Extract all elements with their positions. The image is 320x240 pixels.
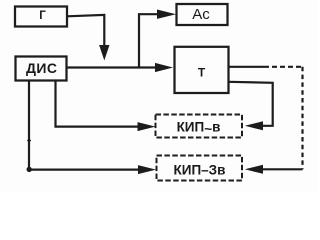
wire T right (to outer) solid part — [229, 66, 265, 68]
wire T right (to outer) dashed part — [264, 66, 303, 68]
wire outer vertical dashed — [301, 67, 303, 170]
svg-text:Т: Т — [198, 65, 206, 79]
wire DIS down-left to KIP-ZV — [29, 81, 140, 170]
wire DIS down-mid to KIP-V — [56, 81, 141, 127]
block KIP-ZV — [157, 156, 243, 181]
wire G right then down toward DIS-T line — [67, 15, 104, 46]
arrowhead right into KIP-V left — [138, 122, 156, 131]
wire outer bottom into KIP-ZV — [261, 168, 303, 170]
block Ac — [177, 4, 228, 25]
svg-text:Ас: Ас — [192, 6, 210, 23]
svg-text:КИП–Зв: КИП–Зв — [174, 162, 226, 177]
wire junction up to Ac — [139, 14, 159, 67]
block G (generator) — [15, 7, 67, 27]
arrowhead right into Ac — [157, 10, 176, 19]
wire T to KIP-V inner — [229, 82, 273, 126]
junction blob at bottom-left corner — [27, 167, 32, 172]
block DIS — [16, 57, 67, 81]
arrowhead left into KIP-ZV right — [245, 165, 263, 174]
arrowhead right into T — [155, 63, 173, 72]
svg-text:Г: Г — [39, 10, 46, 22]
arrowhead left into KIP-V right — [245, 121, 263, 130]
svg-text:ДИС: ДИС — [26, 60, 57, 76]
svg-text:КИП~в: КИП~в — [177, 119, 221, 136]
block T — [175, 47, 229, 93]
block KIP-V — [156, 115, 243, 138]
arrowhead right into KIP-ZV left — [138, 165, 156, 174]
arrowhead down (from G) — [99, 45, 109, 60]
wire DIS to T — [67, 66, 158, 68]
scan tick on left vertical — [27, 140, 31, 142]
